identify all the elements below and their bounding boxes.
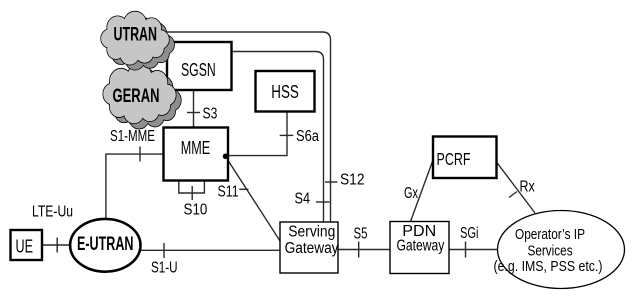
svg-text:SGi: SGi	[460, 225, 479, 242]
svg-text:S1-MME: S1-MME	[110, 128, 155, 145]
svg-text:S4: S4	[295, 191, 311, 208]
svg-text:(e.g. IMS, PSS etc.): (e.g. IMS, PSS etc.)	[494, 258, 603, 275]
svg-text:MME: MME	[181, 138, 211, 158]
svg-text:Services: Services	[528, 243, 573, 260]
svg-text:S3: S3	[203, 106, 218, 123]
svg-text:Serving: Serving	[288, 224, 335, 241]
svg-text:S11: S11	[218, 184, 239, 201]
svg-text:E-UTRAN: E-UTRAN	[77, 234, 134, 255]
svg-text:Gx: Gx	[404, 185, 418, 202]
svg-text:Gateway: Gateway	[397, 238, 445, 255]
svg-text:SGSN: SGSN	[181, 60, 216, 80]
svg-text:Gateway: Gateway	[285, 240, 339, 257]
svg-text:S1-U: S1-U	[151, 260, 178, 277]
svg-text:S12: S12	[340, 172, 365, 189]
svg-text:GERAN: GERAN	[113, 86, 160, 107]
svg-text:S6a: S6a	[296, 128, 319, 145]
svg-text:Rx: Rx	[520, 179, 535, 196]
svg-text:S5: S5	[354, 226, 368, 243]
svg-text:UTRAN: UTRAN	[114, 25, 158, 46]
svg-text:UE: UE	[16, 237, 34, 257]
svg-text:PCRF: PCRF	[437, 149, 471, 169]
svg-text:Operator’s IP: Operator’s IP	[515, 226, 585, 243]
svg-text:S10: S10	[184, 202, 208, 219]
svg-text:LTE-Uu: LTE-Uu	[32, 204, 73, 221]
svg-text:HSS: HSS	[271, 82, 299, 102]
